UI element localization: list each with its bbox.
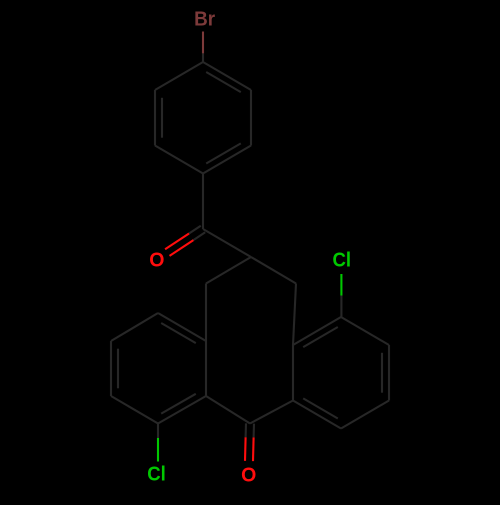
- svg-text:O: O: [149, 249, 164, 272]
- svg-text:Br: Br: [194, 7, 215, 30]
- svg-text:Cl: Cl: [147, 463, 166, 486]
- svg-text:Cl: Cl: [333, 249, 352, 272]
- svg-text:O: O: [241, 464, 256, 487]
